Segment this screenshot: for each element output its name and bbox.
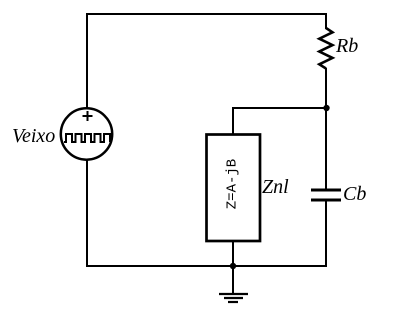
capacitor Cb [311,190,341,200]
voltage source Veixo (circle with + and square-wave) [61,108,112,159]
wire top horizontal rail [86,13,327,15]
svg-text:Z=A-jB: Z=A-jB [225,159,241,209]
resistor Rb [319,28,332,69]
wire box top to junction [233,108,327,134]
wire bottom horizontal rail [86,265,327,267]
svg-text:Rb: Rb [335,35,358,57]
ground [219,266,248,302]
wire right rail lower (capacitor bottom to bottom rail) [325,200,327,267]
svg-text:Veixo: Veixo [12,125,55,147]
wire box bottom to bottom rail [232,241,234,267]
wire right rail upper (to resistor top) [325,13,327,29]
node junction at bottom rail / ground [230,263,236,269]
wire top-left vertical (source top to top rail) [86,14,88,109]
wire right rail (resistor bottom to capacitor top) [325,68,327,190]
impedance Znl box [207,135,261,242]
svg-text:Znl: Znl [262,176,289,198]
svg-text:Cb: Cb [343,183,366,205]
node junction at resistor/capacitor/box-top wire [323,105,329,111]
wire left rail lower (source bottom to bottom rail) [86,160,88,267]
